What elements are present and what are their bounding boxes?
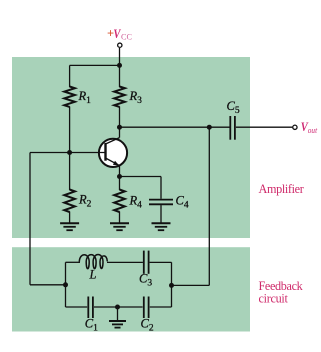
svg-text:circuit: circuit [259,292,289,306]
svg-text:L: L [89,268,97,282]
svg-text:out: out [308,125,318,135]
svg-text:CC: CC [121,32,132,42]
svg-text:Amplifier: Amplifier [259,182,304,196]
